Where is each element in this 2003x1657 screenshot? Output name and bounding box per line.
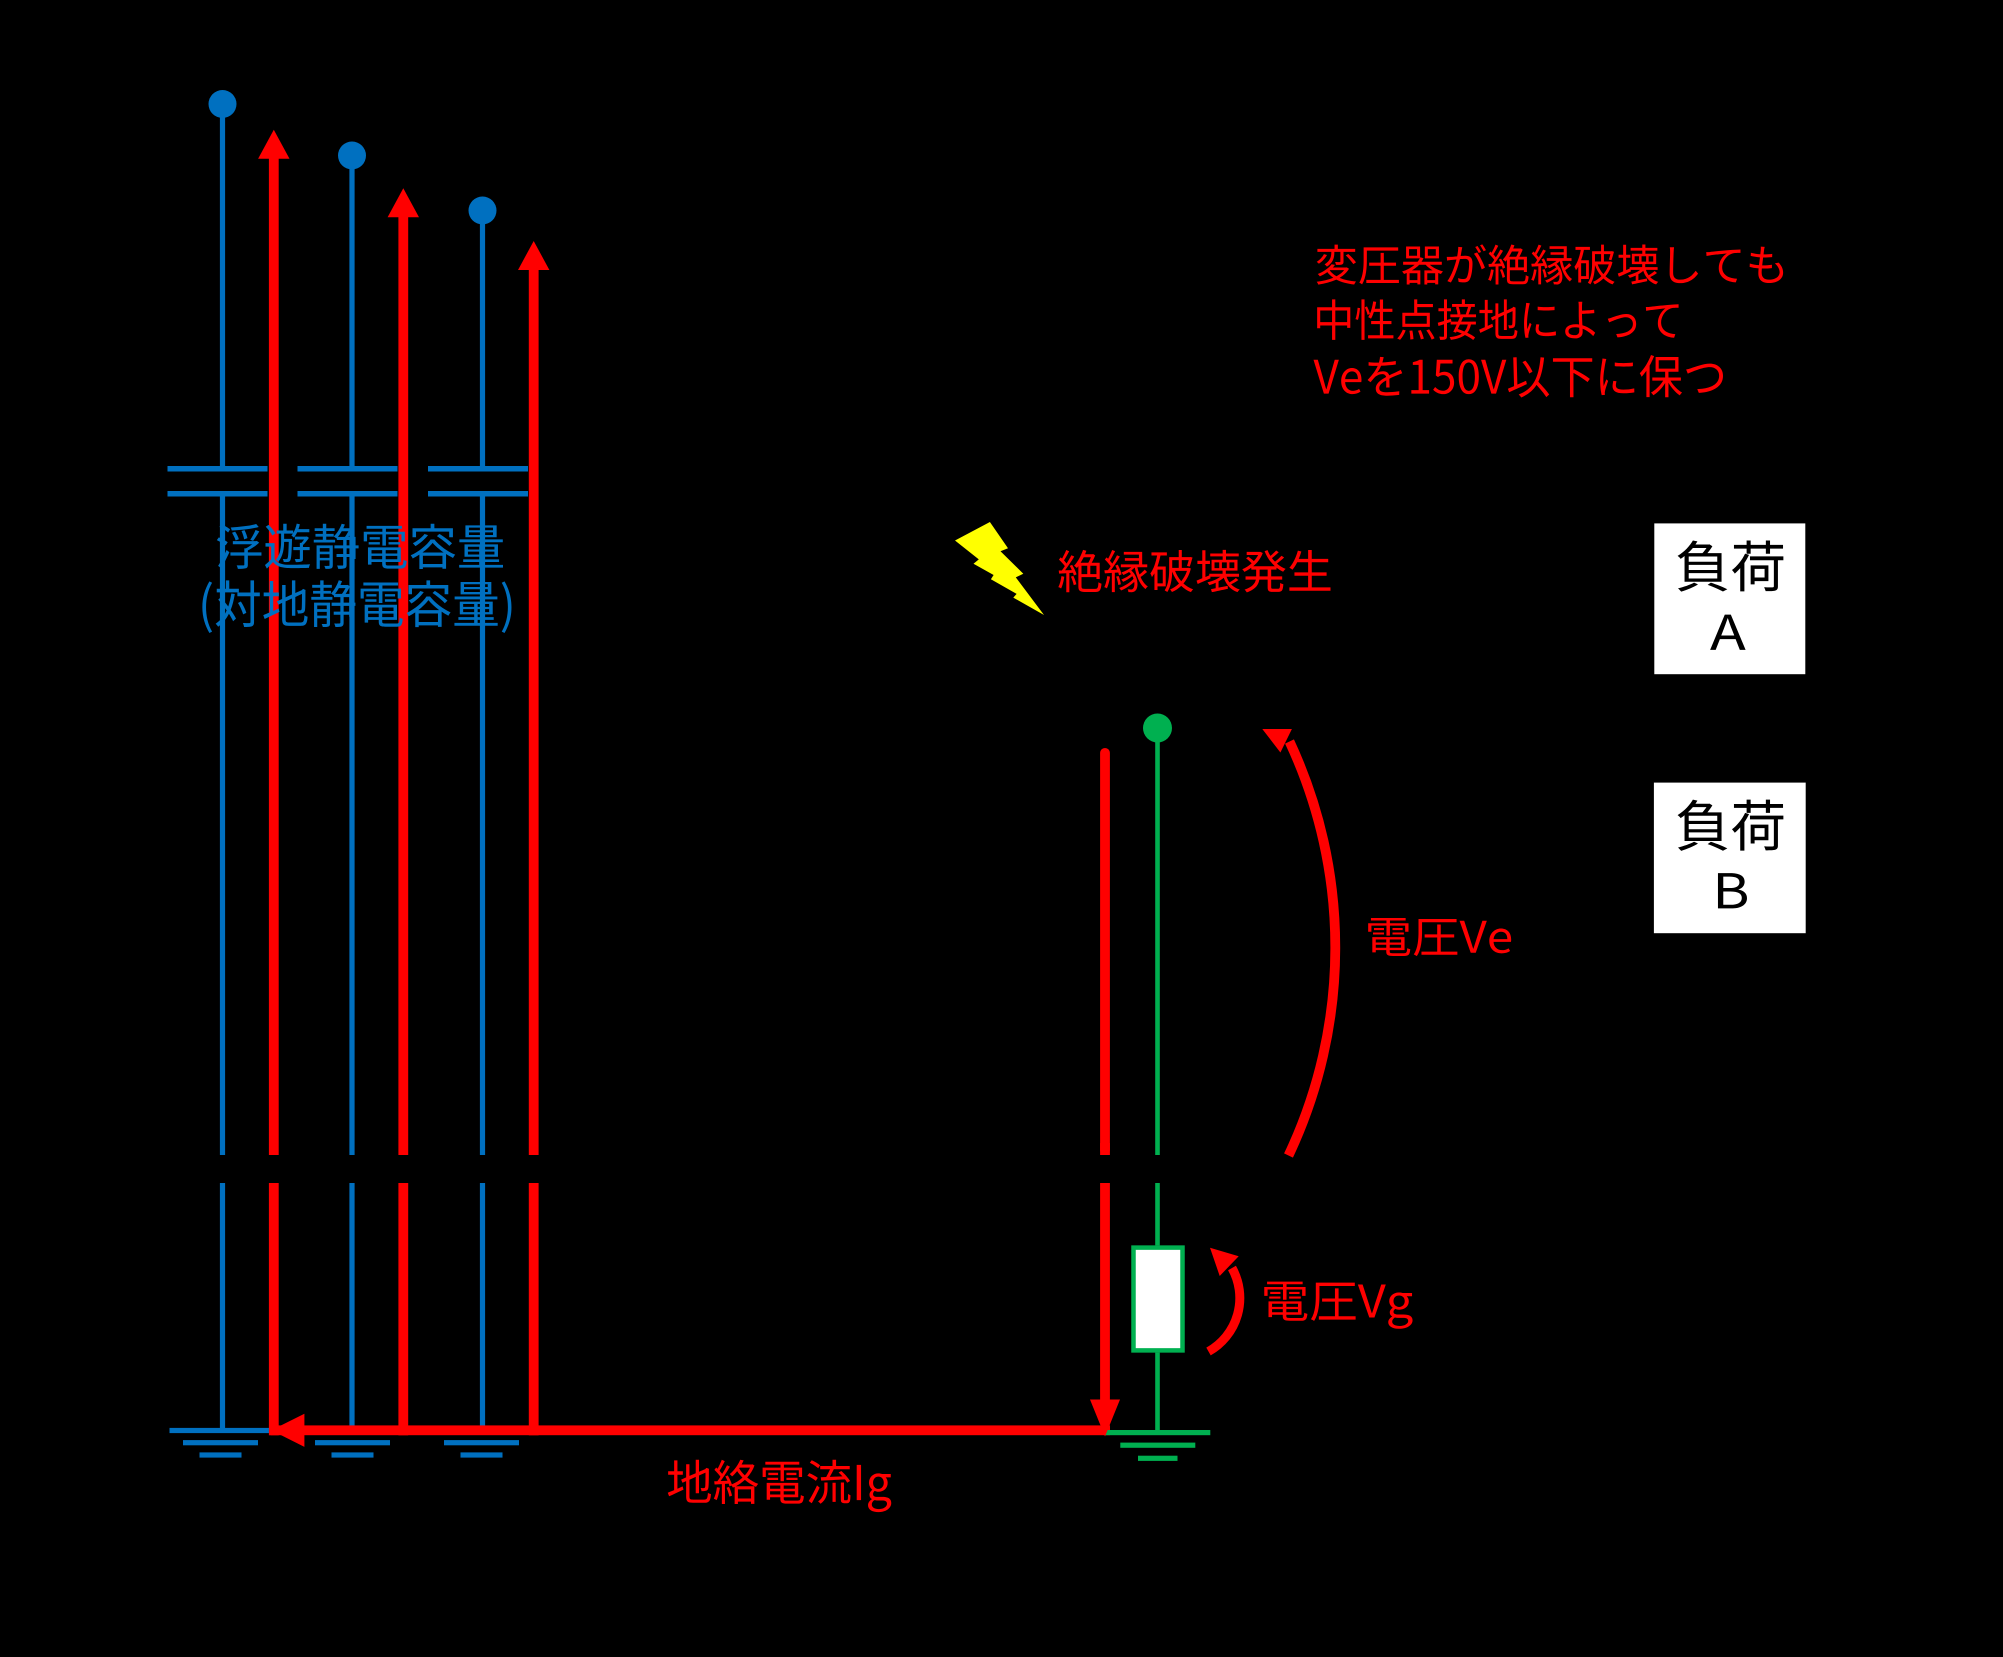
- wire: voltage Vg measurement arc (curved arrow): [1209, 1268, 1240, 1352]
- wire: phase 1 conductor upper segment: [220, 104, 225, 466]
- label: note line 1 (red): [1317, 244, 1783, 284]
- ground: earth symbol 2 (blue, capacitance return): [302, 1428, 404, 1458]
- wire: charging current arrow 1 shaft upper: [269, 158, 279, 1155]
- wire: phase 3 conductor lower segment: [480, 1183, 485, 1428]
- ground: earth symbol 1 (blue, capacitance return): [170, 1428, 272, 1458]
- lightning bolt: insulation breakdown symbol: [955, 522, 1044, 615]
- wire: Vg arc arrowhead: [1210, 1248, 1239, 1276]
- wire: fault current line upper segment square end patch: [1100, 1143, 1110, 1155]
- capacitor C2 bottom plate: [298, 491, 398, 497]
- label: insulation breakdown occurs (red): [1058, 550, 1330, 592]
- ground: earth symbol 3 (blue, capacitance return): [431, 1428, 533, 1458]
- label: voltage Ve (red): [1368, 918, 1511, 956]
- node: phase 2 terminal dot: [338, 142, 366, 170]
- wire: phase 3 conductor middle segment (below capacitor): [480, 491, 485, 1155]
- capacitor C1 (stray capacitance) top plate: [168, 466, 268, 472]
- capacitor C1 bottom plate: [168, 491, 268, 497]
- wire: charging current arrow 1 head: [258, 130, 289, 159]
- capacitor C3 (stray capacitance) top plate: [428, 466, 528, 472]
- wire: neutral grounding conductor upper segment: [1155, 728, 1160, 1155]
- capacitor C2 (stray capacitance) top plate: [298, 466, 398, 472]
- label: load A letter: [1710, 615, 1745, 650]
- label: load B letter: [1718, 873, 1747, 908]
- wire: fault current line upper segment (rounded top): [1100, 748, 1110, 1155]
- wire: voltage Ve measurement arc (curved arrow): [1289, 742, 1336, 1156]
- wire: phase 1 conductor middle segment (below capacitor): [220, 491, 225, 1155]
- wire: fault current arrowhead (down, into ground): [1090, 1400, 1120, 1437]
- wire: phase 2 conductor lower segment: [349, 1183, 354, 1428]
- wire: charging current arrow 2 shaft upper: [398, 216, 408, 1155]
- wire: charging current arrow 2 head: [388, 188, 419, 217]
- wire: charging current arrow 3 shaft upper: [529, 269, 539, 1155]
- wire: phase 1 conductor lower segment: [220, 1183, 225, 1428]
- wire: charging current arrow 2 shaft lower: [398, 1183, 408, 1435]
- wire: Ig arrowhead (left pointing): [271, 1414, 304, 1447]
- node: phase 1 terminal dot: [209, 90, 237, 118]
- wire: ground fault current Ig return line (horizontal): [271, 1425, 1110, 1435]
- label: note line 3 (red): [1314, 355, 1723, 397]
- wire: charging current arrow 3 head: [518, 241, 549, 270]
- label: voltage Vg (red): [1264, 1282, 1412, 1329]
- load box A (white): [1654, 523, 1805, 674]
- label: note line 2 (red): [1317, 299, 1678, 340]
- wire: phase 3 conductor upper segment: [480, 211, 485, 467]
- label: ground fault current Ig (red): [668, 1460, 892, 1512]
- wire: charging current arrow 3 shaft lower: [529, 1183, 539, 1435]
- label: stray capacitance line 1 (blue): [217, 524, 503, 569]
- wire: fault current line lower segment: [1100, 1183, 1110, 1400]
- wire: neutral grounding conductor middle segment: [1155, 1183, 1160, 1245]
- load box B (white): [1654, 783, 1806, 934]
- wire: phase 2 conductor middle segment (below capacitor): [349, 491, 354, 1155]
- node: phase 3 terminal dot: [469, 197, 497, 225]
- label: load A kanji: [1678, 540, 1784, 591]
- label: stray capacitance line 2 (blue): [202, 580, 511, 633]
- wire: charging current arrow 1 shaft lower: [269, 1183, 279, 1435]
- node: transformer neutral point (green dot): [1143, 714, 1172, 743]
- wire: Ve arc arrowhead: [1262, 729, 1292, 753]
- label: load B kanji: [1678, 800, 1784, 851]
- ground: earth symbol (green, neutral ground): [1105, 1430, 1210, 1461]
- wire: neutral grounding conductor lower segment: [1155, 1353, 1160, 1430]
- wire: phase 2 conductor upper segment: [349, 156, 354, 467]
- resistor R1: neutral grounding resistor: [1134, 1248, 1183, 1351]
- capacitor C3 bottom plate: [428, 491, 528, 497]
